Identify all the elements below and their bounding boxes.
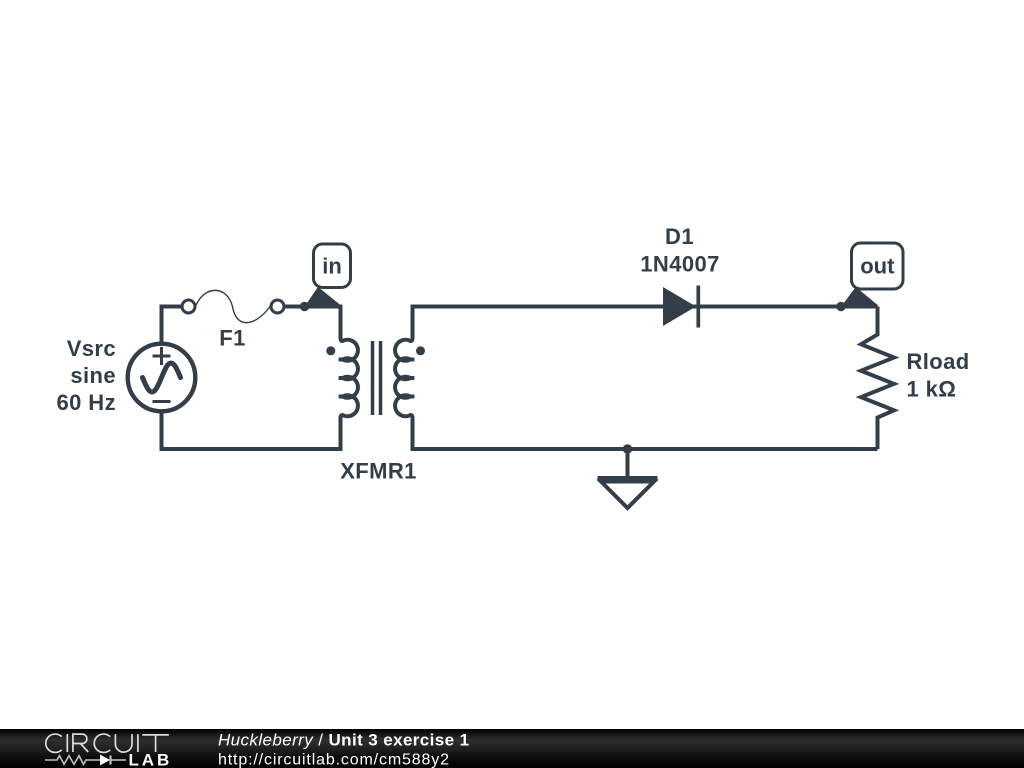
- node dot in: [300, 302, 309, 311]
- diode D1: [663, 286, 698, 328]
- logo CIRCUIT: [46, 734, 169, 752]
- svg-text:LAB: LAB: [129, 751, 173, 768]
- wire secondary bottom: [413, 417, 878, 449]
- wire fuse to transformer corner: [285, 307, 341, 340]
- junction dot ground: [623, 444, 633, 454]
- logo doodle resistor diode: [45, 756, 126, 765]
- label Rload 1 kOhm: [907, 349, 970, 402]
- label D1 1N4007: [640, 224, 719, 277]
- footer bar: [0, 729, 1024, 768]
- label Vsrc sine 60 Hz: [57, 336, 116, 415]
- ground: [598, 449, 658, 508]
- svg-text:http://circuitlab.com/cm588y2: http://circuitlab.com/cm588y2: [218, 752, 450, 768]
- transformer XFMR1: [339, 338, 415, 418]
- svg-text:Huckleberry / Unit 3 exercise: Huckleberry / Unit 3 exercise 1: [218, 731, 469, 750]
- wire primary bottom: [162, 412, 341, 449]
- net flag out: [841, 243, 903, 307]
- resistor Rload: [861, 307, 894, 450]
- phase dot left: [326, 346, 335, 355]
- fuse F1: [182, 290, 284, 322]
- net flag in: [305, 244, 351, 307]
- node dot out: [836, 302, 845, 311]
- wire secondary top with diode net: [413, 307, 878, 340]
- wire source top lead to fuse: [162, 307, 184, 344]
- phase dot right: [416, 346, 425, 355]
- voltage source Vsrc: [128, 344, 196, 412]
